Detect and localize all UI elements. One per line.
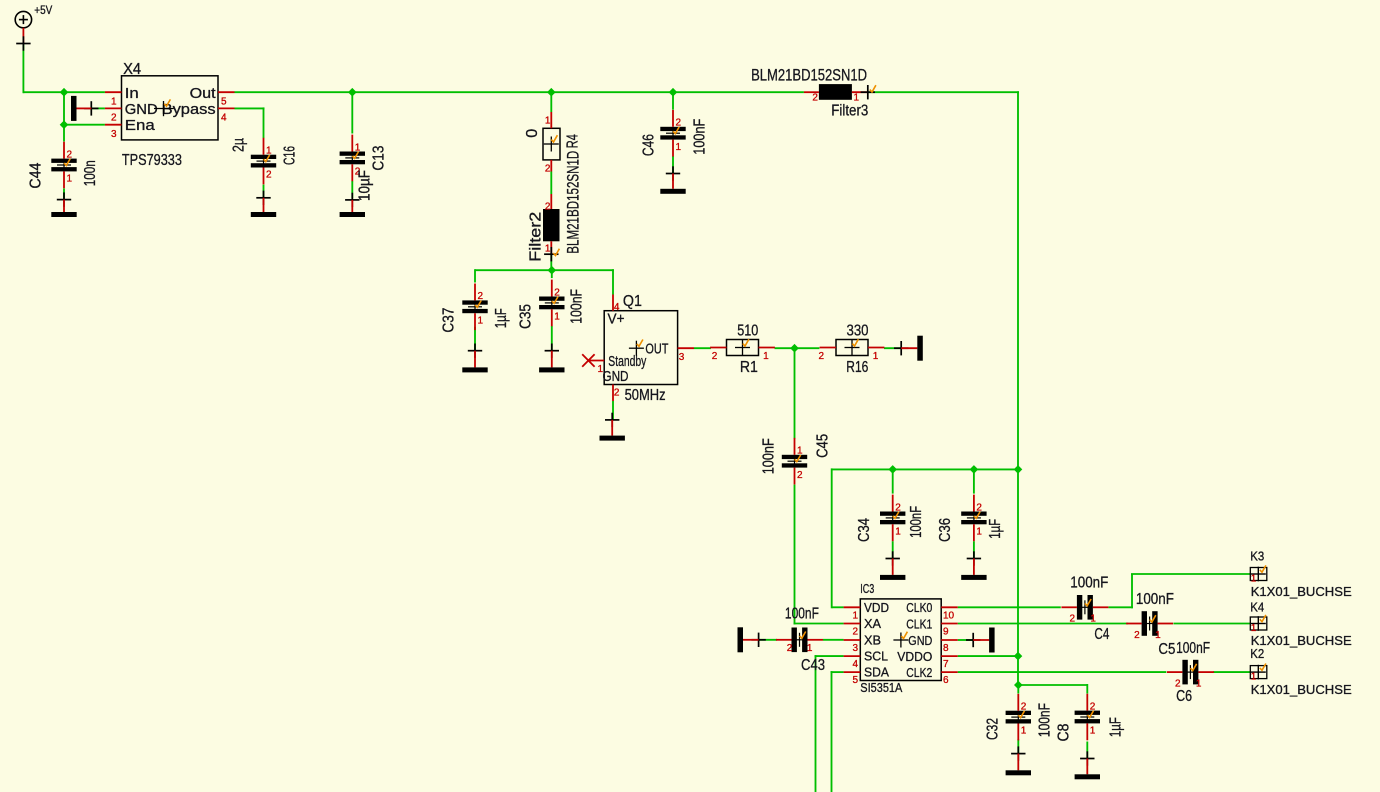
svg-text:100nF: 100nF bbox=[1070, 574, 1108, 591]
svg-text:2: 2 bbox=[676, 118, 682, 129]
svg-text:100nF: 100nF bbox=[1136, 591, 1174, 608]
svg-text:C36: C36 bbox=[937, 518, 954, 542]
svg-text:100nF: 100nF bbox=[569, 289, 586, 324]
svg-text:R4: R4 bbox=[565, 134, 582, 148]
svg-text:1: 1 bbox=[807, 643, 813, 654]
svg-text:1: 1 bbox=[111, 97, 117, 108]
svg-text:K1X01_BUCHSE: K1X01_BUCHSE bbox=[1251, 633, 1352, 648]
svg-text:In: In bbox=[125, 86, 139, 102]
svg-text:XB: XB bbox=[864, 633, 881, 648]
svg-text:GND: GND bbox=[908, 633, 932, 648]
svg-text:2: 2 bbox=[545, 201, 551, 212]
svg-text:1: 1 bbox=[266, 146, 272, 157]
svg-text:IC3: IC3 bbox=[860, 582, 874, 596]
svg-text:C8: C8 bbox=[1056, 724, 1073, 742]
svg-text:Bypass: Bypass bbox=[162, 102, 216, 118]
svg-text:R16: R16 bbox=[846, 359, 868, 376]
svg-text:3: 3 bbox=[679, 352, 685, 363]
svg-text:1: 1 bbox=[67, 174, 73, 185]
svg-text:1: 1 bbox=[676, 142, 682, 153]
svg-text:1µF: 1µF bbox=[1108, 717, 1125, 737]
svg-text:C46: C46 bbox=[641, 134, 658, 156]
svg-text:CLK0: CLK0 bbox=[906, 600, 932, 615]
svg-text:2: 2 bbox=[797, 470, 803, 481]
svg-text:1: 1 bbox=[852, 610, 858, 621]
svg-text:50MHz: 50MHz bbox=[625, 387, 666, 404]
svg-text:1: 1 bbox=[1155, 630, 1161, 641]
svg-text:330: 330 bbox=[847, 322, 869, 339]
svg-text:100nF: 100nF bbox=[1037, 703, 1054, 737]
svg-text:3: 3 bbox=[852, 643, 858, 654]
svg-text:4: 4 bbox=[852, 659, 858, 670]
svg-text:BLM21BD152SN1D: BLM21BD152SN1D bbox=[565, 151, 583, 254]
svg-text:C6: C6 bbox=[1176, 688, 1192, 705]
svg-text:3: 3 bbox=[111, 129, 117, 140]
svg-text:C13: C13 bbox=[371, 146, 388, 171]
svg-text:SI5351A: SI5351A bbox=[860, 681, 903, 695]
svg-text:1: 1 bbox=[895, 527, 901, 538]
svg-text:K1X01_BUCHSE: K1X01_BUCHSE bbox=[1251, 682, 1352, 697]
svg-text:C4: C4 bbox=[1094, 626, 1109, 643]
svg-text:100nF: 100nF bbox=[908, 506, 925, 538]
svg-text:100n: 100n bbox=[82, 160, 99, 186]
svg-text:1: 1 bbox=[1021, 726, 1027, 737]
svg-text:X4: X4 bbox=[123, 61, 141, 78]
svg-text:10: 10 bbox=[943, 610, 955, 621]
svg-text:GND: GND bbox=[603, 369, 629, 385]
svg-text:Q1: Q1 bbox=[623, 293, 642, 310]
svg-text:100nF: 100nF bbox=[785, 606, 819, 623]
svg-text:1: 1 bbox=[478, 315, 484, 326]
svg-text:100nF: 100nF bbox=[692, 119, 709, 155]
svg-text:2: 2 bbox=[545, 163, 551, 174]
svg-text:1: 1 bbox=[355, 142, 361, 153]
svg-text:1: 1 bbox=[1090, 614, 1096, 625]
svg-text:VDD: VDD bbox=[864, 600, 889, 615]
svg-text:1: 1 bbox=[554, 312, 560, 323]
svg-text:SDA: SDA bbox=[864, 665, 889, 680]
svg-text:2µ: 2µ bbox=[231, 138, 248, 152]
svg-text:C34: C34 bbox=[856, 518, 873, 542]
svg-text:2: 2 bbox=[266, 170, 272, 181]
svg-text:VDDO: VDDO bbox=[897, 649, 932, 664]
svg-text:C45: C45 bbox=[815, 434, 832, 458]
svg-text:510: 510 bbox=[737, 322, 758, 339]
svg-text:4: 4 bbox=[221, 113, 227, 124]
svg-text:1µF: 1µF bbox=[493, 308, 510, 328]
svg-text:C5: C5 bbox=[1158, 641, 1175, 658]
svg-text:1: 1 bbox=[1090, 726, 1096, 737]
svg-text:R1: R1 bbox=[740, 359, 758, 376]
svg-text:C43: C43 bbox=[801, 657, 825, 674]
svg-text:Filter3: Filter3 bbox=[831, 103, 868, 120]
svg-text:2: 2 bbox=[614, 388, 620, 399]
svg-text:2: 2 bbox=[818, 351, 824, 362]
svg-text:OUT: OUT bbox=[645, 342, 668, 358]
svg-text:2: 2 bbox=[1134, 630, 1140, 641]
svg-text:SCL: SCL bbox=[864, 649, 888, 664]
svg-text:Standby: Standby bbox=[608, 354, 647, 370]
svg-text:1: 1 bbox=[797, 446, 803, 457]
svg-text:GND: GND bbox=[125, 102, 158, 118]
svg-text:2: 2 bbox=[812, 93, 818, 104]
svg-text:Out: Out bbox=[190, 86, 216, 102]
svg-text:2: 2 bbox=[1090, 701, 1096, 712]
svg-text:0: 0 bbox=[524, 128, 541, 137]
svg-text:1: 1 bbox=[545, 115, 551, 126]
svg-text:CLK1: CLK1 bbox=[906, 616, 932, 631]
svg-text:1: 1 bbox=[1251, 672, 1257, 683]
svg-text:CLK2: CLK2 bbox=[906, 665, 932, 680]
svg-text:C32: C32 bbox=[985, 718, 1002, 740]
svg-text:1: 1 bbox=[545, 244, 551, 255]
svg-text:K3: K3 bbox=[1250, 549, 1264, 563]
svg-text:K4: K4 bbox=[1250, 601, 1264, 615]
svg-text:C16: C16 bbox=[282, 146, 299, 165]
svg-text:2: 2 bbox=[852, 627, 858, 638]
svg-text:2: 2 bbox=[478, 291, 484, 302]
svg-text:1: 1 bbox=[763, 351, 769, 362]
svg-text:C44: C44 bbox=[28, 162, 45, 188]
svg-text:10µF: 10µF bbox=[357, 170, 374, 201]
svg-text:1µF: 1µF bbox=[987, 519, 1004, 539]
svg-text:100nF: 100nF bbox=[1176, 640, 1210, 657]
svg-text:C35: C35 bbox=[518, 304, 535, 329]
svg-text:+5V: +5V bbox=[34, 5, 52, 17]
svg-text:C37: C37 bbox=[441, 308, 458, 333]
svg-text:Ena: Ena bbox=[125, 118, 156, 134]
svg-text:8: 8 bbox=[943, 643, 949, 654]
svg-text:K1X01_BUCHSE: K1X01_BUCHSE bbox=[1251, 584, 1352, 599]
svg-text:2: 2 bbox=[976, 502, 982, 513]
svg-text:XA: XA bbox=[864, 616, 881, 631]
svg-text:6: 6 bbox=[943, 675, 949, 686]
svg-text:2: 2 bbox=[1069, 614, 1075, 625]
svg-text:2: 2 bbox=[111, 113, 117, 124]
svg-text:1: 1 bbox=[873, 351, 879, 362]
svg-text:5: 5 bbox=[221, 97, 227, 108]
svg-text:2: 2 bbox=[895, 502, 901, 513]
svg-text:2: 2 bbox=[1021, 702, 1027, 713]
svg-text:100nF: 100nF bbox=[761, 438, 778, 474]
svg-text:BLM21BD152SN1D: BLM21BD152SN1D bbox=[751, 67, 867, 85]
svg-text:Filter2: Filter2 bbox=[528, 212, 545, 262]
svg-text:9: 9 bbox=[943, 627, 949, 638]
svg-text:2: 2 bbox=[787, 643, 793, 654]
svg-text:K2: K2 bbox=[1250, 647, 1264, 661]
svg-text:2: 2 bbox=[554, 287, 560, 298]
svg-text:7: 7 bbox=[943, 659, 949, 670]
svg-text:1: 1 bbox=[976, 527, 982, 538]
svg-text:2: 2 bbox=[712, 351, 718, 362]
svg-text:TPS79333: TPS79333 bbox=[122, 152, 182, 169]
svg-text:2: 2 bbox=[67, 149, 73, 160]
svg-text:5: 5 bbox=[852, 675, 858, 686]
svg-text:1: 1 bbox=[1196, 679, 1202, 690]
svg-text:V+: V+ bbox=[608, 311, 625, 327]
